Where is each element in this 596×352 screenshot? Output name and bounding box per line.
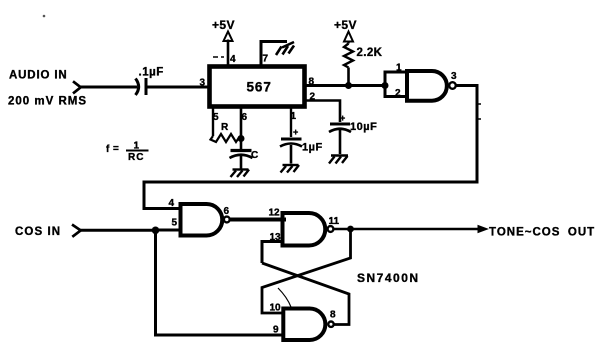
svg-text:3: 3 <box>451 71 457 82</box>
svg-text:COS IN: COS IN <box>15 226 61 238</box>
NAND gate U2C <box>283 213 334 246</box>
wire tie to pin1 <box>385 72 408 86</box>
wire NAND1 output feedback <box>144 86 477 209</box>
svg-text:567: 567 <box>247 80 272 95</box>
stray thin curve near pin10 <box>278 288 291 307</box>
wire pin6 down <box>240 107 243 150</box>
wire pin7 up and right <box>261 42 287 67</box>
wire NAND2 out to NAND3 pin12 <box>230 218 286 222</box>
wire cos-in to junction <box>79 229 156 232</box>
svg-text:+: + <box>293 127 298 137</box>
svg-text:12: 12 <box>269 208 281 219</box>
wire audio-in to C1 <box>79 86 137 89</box>
wire pin4 to +5V <box>227 40 230 67</box>
wire pin1 down <box>290 107 292 137</box>
resistor 2.2K <box>344 44 353 86</box>
svg-text:+: + <box>340 113 345 123</box>
wire tie to pin2 <box>385 86 408 97</box>
svg-text:8: 8 <box>330 310 336 321</box>
node junction R-2.2K <box>345 82 352 89</box>
node junction COS <box>152 227 160 235</box>
svg-text:10µF: 10µF <box>350 121 377 133</box>
svg-text:2: 2 <box>395 88 401 99</box>
wire pin13 stub <box>262 242 284 264</box>
svg-text:C: C <box>251 150 258 161</box>
stray ticks on right vertical <box>478 103 481 105</box>
svg-text:+5V: +5V <box>334 18 357 32</box>
svg-text:R: R <box>221 122 229 133</box>
formula f = 1/RC <box>106 141 149 164</box>
NAND gate U2B <box>181 204 230 236</box>
capacitor C <box>230 151 253 169</box>
NAND gate U2A <box>407 71 456 101</box>
svg-text:.1µF: .1µF <box>139 67 164 79</box>
node output junction <box>347 226 354 233</box>
svg-text:9: 9 <box>273 325 279 336</box>
wire cross A pin13 to NAND4 out <box>262 263 349 325</box>
node junction R C <box>238 135 245 142</box>
svg-text:AUDIO IN: AUDIO IN <box>9 70 68 82</box>
capacitor C .1uF <box>136 78 147 95</box>
svg-text:+5V: +5V <box>212 18 235 32</box>
svg-text:6: 6 <box>242 112 248 123</box>
node cos input chevron <box>72 225 81 237</box>
stray dash near pin4 <box>213 56 224 58</box>
resistor R <box>211 134 242 142</box>
node output arrow <box>478 226 488 233</box>
NAND gate U2D <box>283 309 333 341</box>
wire pin8 to NAND tie <box>305 84 386 87</box>
svg-text:TONE~COS OUT: TONE~COS OUT <box>489 227 595 239</box>
wire pin5 down <box>212 107 214 136</box>
svg-text:5: 5 <box>172 218 178 229</box>
svg-text:1: 1 <box>396 63 402 74</box>
svg-text:6: 6 <box>224 206 230 217</box>
wire junction down to pin9 <box>156 230 285 335</box>
svg-text:200 mV RMS: 200 mV RMS <box>8 96 87 108</box>
ground 1uF <box>281 165 300 173</box>
svg-text:4: 4 <box>230 54 236 65</box>
svg-text:7: 7 <box>263 54 269 65</box>
svg-text:10: 10 <box>270 303 282 314</box>
capacitor 1uF <box>280 127 302 164</box>
op-amp U1 567 box <box>210 67 305 107</box>
wire C1 to pin3 <box>148 86 209 89</box>
node +5V arrow (pin4) <box>224 32 233 42</box>
svg-text:SN7400N: SN7400N <box>357 271 420 285</box>
wire junction to pin5 NAND2 <box>156 229 183 232</box>
node NAND1 input tie <box>382 82 389 89</box>
svg-text:2.2K: 2.2K <box>357 47 383 59</box>
stray dot top-left <box>43 15 46 18</box>
node audio input chevron <box>73 81 81 93</box>
svg-text:RC: RC <box>128 152 144 163</box>
svg-text:4: 4 <box>169 198 175 209</box>
svg-text:3: 3 <box>200 78 206 89</box>
capacitor 10uF <box>329 113 351 154</box>
svg-text:=: = <box>113 144 119 155</box>
wire pin2 to 10uF <box>305 101 340 123</box>
svg-text:11: 11 <box>329 216 340 227</box>
ground C <box>231 170 250 178</box>
svg-text:1µF: 1µF <box>302 142 323 154</box>
wire NAND3 out to output <box>334 228 482 230</box>
node +5V arrow (2.2K) <box>344 32 353 42</box>
wire cross B NAND3 out to pin10 <box>262 229 351 313</box>
ground 10uF <box>329 156 348 164</box>
ground pin7 (slanted) <box>276 42 294 55</box>
